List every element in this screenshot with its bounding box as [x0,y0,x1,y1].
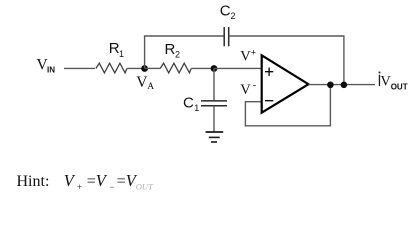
capacitor C1 [201,101,227,106]
wire node B down to C1 [213,68,215,100]
label Vout [380,74,407,92]
svg-text:=: = [117,173,126,190]
svg-text:OUT: OUT [136,181,154,191]
svg-text:1: 1 [119,49,124,59]
label R2 [165,41,181,60]
label V+ input [240,48,256,65]
wire node B to op-amp plus input [214,67,262,69]
svg-text:C: C [183,94,194,111]
label V- input [240,81,256,98]
wire top rail down to output [343,35,345,84]
wire inverting input stub [245,85,330,126]
wire node A up to top rail [144,36,146,68]
label Vin [37,57,56,75]
capacitor C2 [224,27,229,46]
svg-text:+: + [251,48,256,58]
wire op-amp output [309,84,376,86]
svg-text:C: C [220,3,231,20]
wire R2 to node B [191,67,214,69]
svg-text:A: A [147,82,154,92]
svg-text:−: − [110,182,115,192]
svg-text:-: - [253,81,256,92]
resistor R1 [96,63,127,73]
cursor artifact before Vout [379,72,381,87]
label R1 [109,40,124,59]
label C2 [220,3,236,22]
hint text [17,171,155,192]
svg-text:2: 2 [175,50,180,60]
svg-text:V: V [240,49,251,65]
svg-text:+: + [77,182,82,192]
ground [206,132,224,142]
wire R1 to node A [127,67,145,69]
op-amp minus sign [265,100,273,102]
op-amp U1 [262,55,309,112]
op-amp plus sign [265,68,273,76]
svg-text:V: V [240,82,251,98]
svg-text:1: 1 [194,103,199,113]
wire top rail left of C2 [144,35,224,37]
resistor R2 [160,63,191,73]
svg-text:=: = [87,173,96,190]
label node VA [136,74,154,92]
node output rail dot [341,82,348,89]
node A junction dot [141,65,148,72]
wire C1 to ground [213,106,215,132]
svg-text:IN: IN [47,65,55,74]
node output feedback dot [327,82,334,89]
svg-text:R: R [165,41,176,58]
svg-text:OUT: OUT [391,82,408,91]
label C1 [183,94,199,113]
svg-text:2: 2 [231,11,236,21]
node B junction dot [211,65,218,72]
wire node A to R2 [145,67,161,69]
svg-text:Hint:: Hint: [17,173,50,190]
wire top rail right of C2 [229,35,344,37]
wire Vin to R1 [64,67,95,69]
